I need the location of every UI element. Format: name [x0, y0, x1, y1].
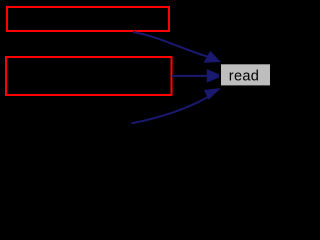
node read (gray, current function) [220, 63, 271, 86]
arrowhead edge 2 [207, 70, 222, 82]
caller node box 1 (truncated, red outline) [7, 7, 169, 31]
edge from box 1 to read [133, 32, 208, 57]
arrowhead edge 1 [204, 52, 219, 63]
arrowhead edge 3 [205, 89, 220, 99]
caller node box 2 (truncated, red outline, two-line) [6, 57, 172, 95]
svg-text:read: read [229, 69, 259, 85]
edge from hidden node 3 to read [132, 97, 208, 123]
edge from box 2 to read [172, 75, 210, 77]
